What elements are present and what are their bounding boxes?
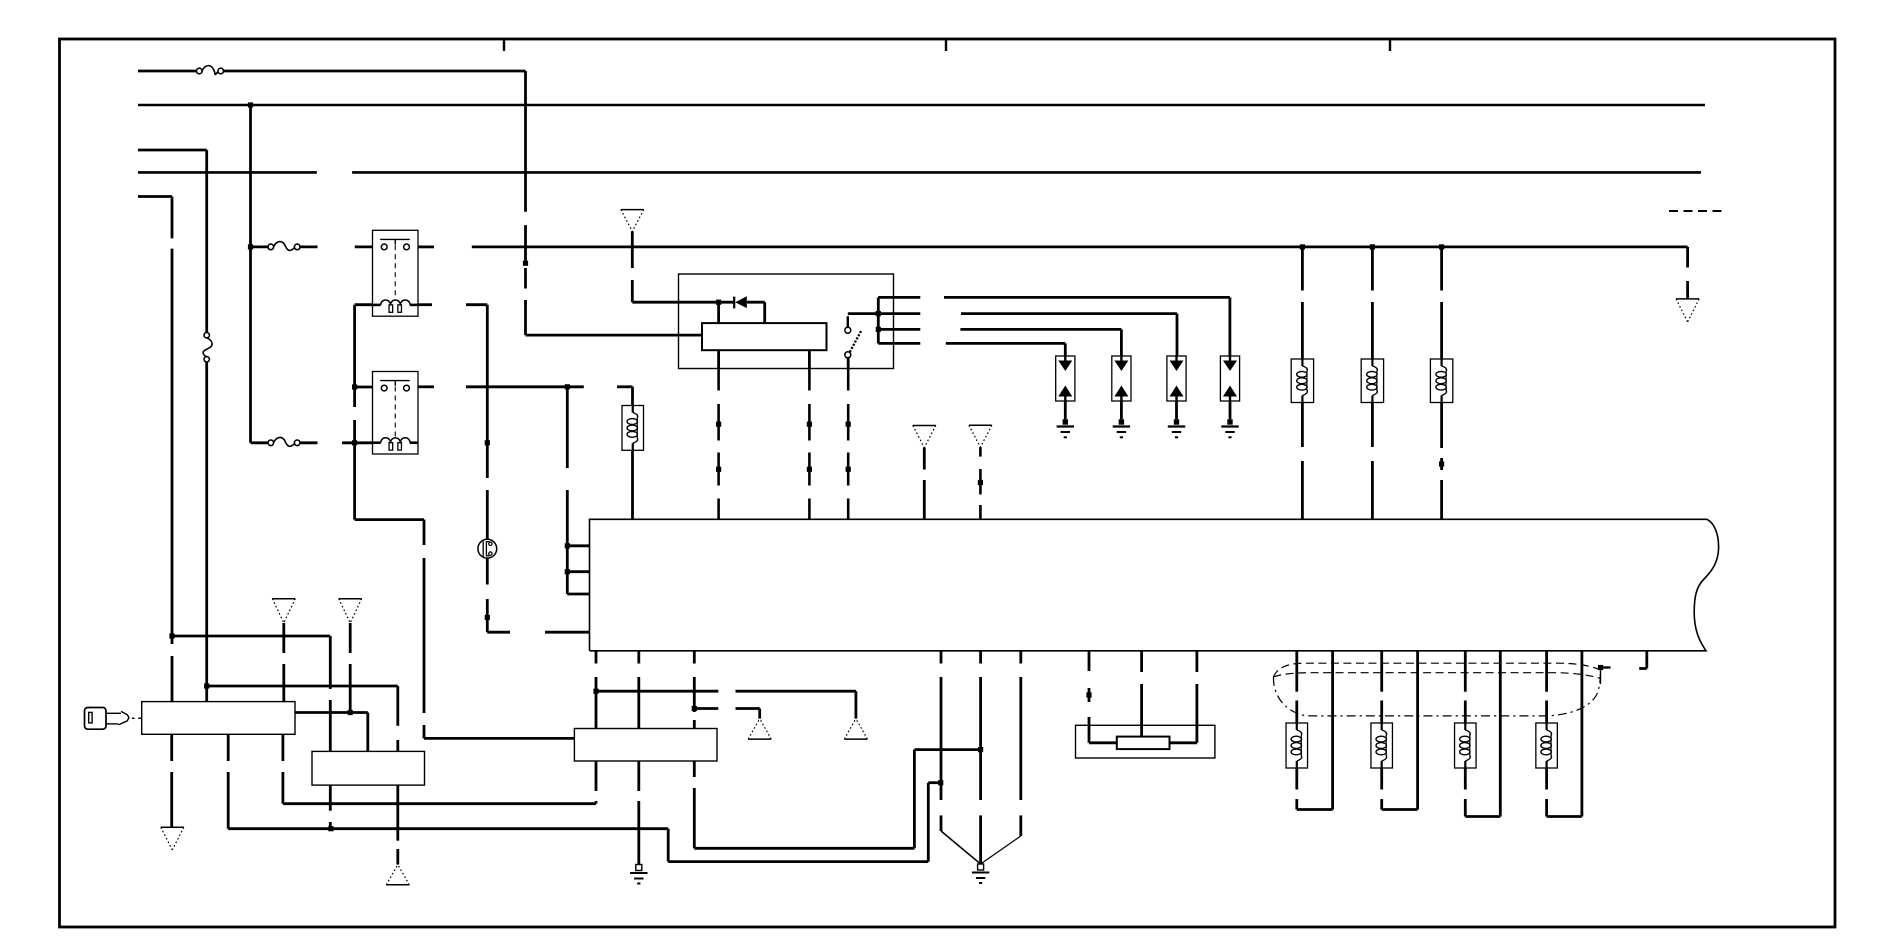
connector square x=525.5 y=263	[523, 261, 528, 266]
wire run to connector T8 (y=708.5)	[694, 707, 759, 710]
wire R1 contact right pin	[418, 245, 434, 248]
junction dot x=487.3 y=617.5	[485, 615, 490, 620]
ground G2	[1113, 419, 1130, 437]
connector square pin A upper	[716, 422, 721, 427]
wire U1 pin C to ECU	[847, 358, 850, 520]
junction dot x=172 y=636	[169, 633, 174, 638]
fuse F3	[268, 242, 300, 251]
wire drop x=718.6 to inner block	[717, 302, 720, 323]
wire R2 contact right pin run (y=387)	[418, 385, 633, 388]
connector square T3 stem	[978, 480, 983, 485]
connector square pin C upper	[846, 422, 851, 427]
lamp B4 bulb box	[1536, 723, 1558, 768]
fuse F1	[197, 66, 224, 75]
connector triangle T8 up (x=760)	[748, 719, 771, 740]
wire bus E (y=196)	[138, 195, 172, 198]
wire B2 internal left	[1089, 741, 1117, 744]
wire stub into relay R1 contact	[355, 245, 373, 248]
wire branch y=636	[172, 635, 330, 638]
junction dot x=596 y=691.2	[593, 689, 598, 694]
wire T6 stem down	[349, 623, 352, 713]
wire bus B (y=105)	[138, 104, 1705, 107]
border tick marks	[504, 39, 1390, 51]
wire ECU ground pin x=941	[940, 651, 943, 831]
wire T9 stem	[855, 691, 858, 718]
connector triangle T7 (x=172)	[161, 827, 184, 850]
ECU stub y=545.8	[567, 544, 589, 547]
fuse F2 vertical	[203, 333, 212, 362]
wire ECU to lamp B1	[1295, 651, 1298, 723]
key symbol	[85, 708, 142, 730]
resistor assembly box B2	[1076, 725, 1215, 758]
wire U1 pin A to ECU	[717, 350, 720, 519]
wire S1 right pin (y=712.5)	[295, 711, 368, 714]
connector triangle T5 (x=283.8)	[272, 599, 295, 623]
wire B1 pin left down	[329, 785, 332, 829]
indicator circle component	[478, 539, 497, 558]
connector triangle T10 up (x=397.8)	[386, 865, 409, 885]
wire R1 coil left pin to vertical	[355, 303, 373, 306]
wire bus A with fuse F1 (y=71)	[138, 70, 526, 73]
wire C1 pin right down	[693, 761, 696, 848]
connector square pin C lower	[846, 467, 851, 472]
wire x=367.8 down to box B1	[366, 713, 369, 752]
wire ECU pin x=1141.6	[1140, 651, 1143, 737]
junction dot x=354.6 y=443	[352, 440, 357, 445]
resistor element R3	[1117, 737, 1170, 750]
junction dot bus-247 x=1372.4	[1370, 244, 1375, 249]
junction dot x=567.3 y=545.8	[565, 543, 570, 548]
wire vertical x=567.3 with ECU stubs	[566, 387, 569, 594]
ground G3	[1168, 419, 1185, 437]
wire run to connector T9 (y=691)	[596, 690, 856, 693]
wire fused row with fuse F4 (y=443)	[251, 441, 318, 444]
connector square pin B lower	[807, 467, 812, 472]
lamp B3 bulb box	[1455, 723, 1477, 768]
wire U1 pin B to ECU	[808, 350, 811, 519]
wire diode to corner	[747, 301, 765, 304]
connector box B1	[312, 751, 425, 785]
wire T5 stem to S1	[282, 623, 285, 702]
junction dot x=694.3 y=708.5	[692, 706, 697, 711]
wire below oval node	[1600, 668, 1602, 685]
wire D4 to ground	[1229, 401, 1232, 419]
wire bus to lamp L1	[1301, 247, 1304, 359]
wire feed to control unit (y=335)	[526, 334, 703, 337]
junction dot x=567 y=387	[565, 384, 570, 389]
junction dot bus-247 x=1441.6	[1439, 244, 1444, 249]
ground G5	[630, 865, 647, 884]
wire loop y=848.3	[694, 847, 914, 850]
wire loop up x=914.4	[913, 750, 916, 849]
diagonal x=941 to ground	[941, 831, 981, 864]
wire ECU hook pin	[1639, 651, 1647, 669]
wire ECU to lamp B3	[1464, 651, 1467, 723]
wire ECU pin to C1 left	[595, 651, 598, 729]
connector square pin B upper	[807, 422, 812, 427]
wire vertical x=487.3 (coil bus to indicator)	[486, 305, 489, 540]
wire ECU pin to C1 right	[693, 651, 696, 729]
switch SW1 in U1	[845, 316, 861, 358]
connector triangle T6 (x=350.2)	[339, 599, 362, 623]
junction dot x=1600 y=667.5	[1598, 665, 1603, 670]
junction square in U1 (x=718.6)	[716, 300, 721, 305]
wire ECU pin x=1089	[1088, 651, 1091, 743]
wire switch top to right bus	[848, 312, 879, 315]
node on bus B at x=250	[248, 102, 253, 107]
wire fused row with fuse F3 (y=247)	[251, 245, 318, 248]
wire lamp B1 bottom loop	[1297, 651, 1333, 810]
wire R1 coil right pin	[418, 303, 487, 306]
ECU stub y=594	[567, 593, 589, 596]
wire vertical x=206.7 with fuse F2	[205, 150, 208, 702]
diode pack D2	[1112, 356, 1131, 401]
wire ECU pin to C1 mid	[637, 651, 640, 729]
inner block of U1	[702, 323, 827, 350]
lamp B1 bulb box	[1286, 723, 1308, 768]
junction dot x=940.7 y=782.7	[938, 780, 943, 785]
lamp L2 coil box	[1361, 359, 1383, 403]
wire below indicator to ECU (corner y=632)	[487, 558, 589, 632]
wire route y=782.7 to node	[928, 781, 940, 784]
wire route 1 to diode D4	[878, 297, 1230, 356]
wire T2 stem to ECU	[923, 448, 926, 520]
wire lamp L2 to ECU	[1371, 403, 1374, 520]
wire bus to lamp L3	[1440, 247, 1443, 359]
wire diode corner drop x=764.7	[763, 302, 766, 323]
wire D3 to ground	[1175, 401, 1178, 419]
wire vertical x=424 (from relay area)	[423, 520, 426, 739]
wire to fuse F5	[631, 387, 634, 406]
connector triangle T4 (x=1687.6)	[1676, 299, 1699, 322]
junction dot x=487.3 y=443	[485, 440, 490, 445]
wire B2 internal right	[1170, 741, 1197, 744]
lamp B2 bulb box	[1371, 723, 1393, 768]
wire bus C (y=150)	[138, 149, 207, 152]
junction dot x=878.3 y=313.6	[876, 311, 881, 316]
wire lamp B3 bottom loop	[1465, 651, 1500, 817]
ground G6	[972, 864, 989, 883]
connector box C1	[574, 729, 717, 762]
wire S1 pin2 route (y=828.7)	[228, 734, 668, 828]
wire R2 contact left pin	[355, 386, 373, 389]
connector triangle T1 (x=632)	[621, 210, 644, 232]
wire feed into C1 (y=738.4)	[424, 737, 574, 740]
wire loop y=749.6	[914, 748, 980, 751]
wire S1 pin1 down	[170, 734, 173, 827]
junction dot x=206.7 y=686	[204, 683, 209, 688]
wire F5 to ECU	[631, 450, 634, 519]
junction dot bus-247 x=1302.4	[1300, 244, 1305, 249]
junction dot x=567.3 y=571.7	[565, 569, 570, 574]
diode pack D3	[1167, 356, 1186, 401]
diode pack D4	[1220, 356, 1239, 401]
diode D5	[734, 296, 747, 308]
junction dot x=878.3 y=329.4	[876, 327, 881, 332]
dashed wire stub (top right)	[1669, 210, 1722, 212]
ground G4	[1221, 419, 1238, 437]
wire branch y=686	[207, 685, 398, 688]
wire ECU pin x=1196.9	[1196, 651, 1199, 743]
wire T3 stem to ECU	[979, 447, 982, 519]
wire stub right of oval node	[1601, 666, 1611, 668]
wire corner x=354.6 to x=424 (y=519.6)	[355, 518, 424, 521]
wire lamp L1 to ECU	[1301, 403, 1304, 520]
wire ECU ground pin x=980.6	[979, 651, 982, 864]
wire route 3 to diode D2	[878, 329, 1121, 356]
wire S1 pin3 route (y=803.7)	[283, 734, 596, 803]
connector square x=1441.6 y=464	[1439, 461, 1444, 466]
wire vertical x=172 to ignition switch	[171, 197, 174, 702]
wire lamp B4 bottom loop	[1547, 651, 1582, 817]
wire C1 pin mid to ground	[637, 761, 640, 865]
junction dot x=350.2 y=712.5	[348, 710, 353, 715]
wire vertical x=525.5 (bus A corner down)	[524, 71, 527, 335]
wire lamp B2 bottom loop	[1382, 651, 1418, 810]
ECU main box	[590, 519, 1719, 651]
wire route 4 to diode D1	[878, 343, 1065, 356]
junction dot x=330.3 y=828.7	[328, 826, 333, 831]
wire ECU ground pin x=1020.8	[1019, 651, 1022, 836]
wire bus to lamp L2	[1371, 247, 1374, 359]
connector triangle T3 (x=980)	[969, 425, 992, 447]
wire main bus y=247 right run	[472, 246, 1688, 249]
junction dot x=980.6 y=749.6	[978, 747, 983, 752]
ECU stub y=571.7	[567, 570, 589, 573]
wire x=397.8 down to box B1	[396, 686, 399, 751]
wire stub into relay R2 coil	[342, 441, 373, 444]
connector triangle T9 up (x=856)	[844, 719, 867, 740]
fuse F5 box	[622, 406, 644, 451]
junction dot x=250.5 y=247	[248, 244, 253, 249]
wire diode feed (y=302)	[632, 301, 734, 304]
relay R1	[373, 230, 419, 316]
wire vertical x=354.6 (R1 coil to R2 / corner)	[353, 305, 356, 520]
ignition switch box S1	[142, 702, 295, 735]
control unit box U1	[679, 274, 894, 369]
wire T8 stem	[758, 709, 761, 719]
wire route up x=928.3	[927, 783, 930, 862]
wire B1 pin right down	[396, 785, 399, 865]
lamp L3 coil box	[1430, 359, 1452, 403]
lamp L1 coil box	[1291, 359, 1313, 403]
wire ECU to lamp B4	[1545, 651, 1548, 723]
wire D2 to ground	[1120, 401, 1123, 419]
wire right bus vertical x=878.3	[877, 297, 880, 343]
junction dot x=354.6 y=387	[352, 384, 357, 389]
wire route 2 to diode D3	[878, 314, 1177, 356]
wire lamp L3 to ECU	[1440, 403, 1443, 520]
ground G1	[1057, 419, 1074, 437]
wire ECU to lamp B2	[1380, 651, 1383, 723]
diagonal x=1020.8 to ground	[981, 836, 1021, 864]
wire route y=861.6	[668, 860, 928, 863]
connector square x=1089 y=695	[1086, 692, 1091, 697]
connector triangle T2 (x=924)	[913, 426, 936, 448]
wire D1 to ground	[1064, 401, 1067, 419]
diode pack D1	[1056, 356, 1075, 401]
wire x=330.3 down to box B1	[329, 636, 332, 751]
wire vertical x=250.5 (bus B to fuse rows)	[249, 105, 252, 443]
harness grouping oval	[1273, 663, 1600, 716]
wire route down x=668.2	[667, 829, 670, 862]
wire C1 pin left down	[595, 761, 598, 804]
relay R2	[373, 372, 419, 455]
wire bus corner down x=1687.6	[1686, 247, 1689, 299]
wire T1 stem down	[631, 231, 634, 302]
connector square pin A lower	[716, 467, 721, 472]
fuse F4	[268, 437, 300, 446]
wire bus D (y=172)	[138, 171, 1701, 174]
